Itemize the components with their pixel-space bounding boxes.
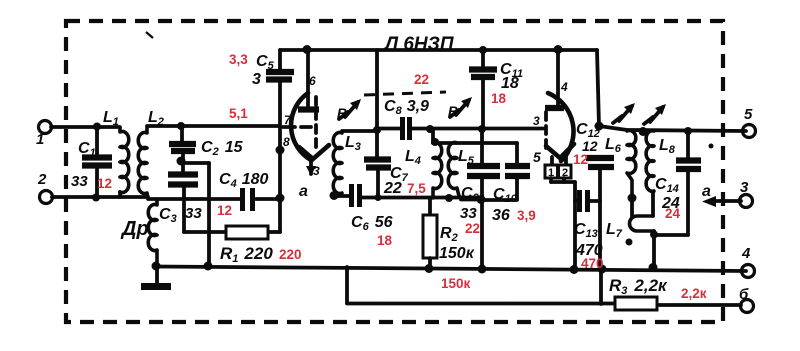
svg-text:36: 36 xyxy=(492,207,510,224)
svg-text:3,3: 3,3 xyxy=(229,52,248,67)
svg-text:б: б xyxy=(739,286,749,303)
svg-text:24: 24 xyxy=(665,206,681,221)
svg-text:1: 1 xyxy=(36,131,44,148)
svg-text:22: 22 xyxy=(465,221,480,236)
svg-text:3: 3 xyxy=(740,179,749,196)
svg-text:18: 18 xyxy=(491,91,507,106)
svg-text:22: 22 xyxy=(414,72,429,87)
svg-text:12: 12 xyxy=(217,203,232,218)
svg-text:150к: 150к xyxy=(439,245,475,262)
svg-text:R1220: R1220 xyxy=(220,244,273,265)
svg-text:18: 18 xyxy=(377,233,393,248)
svg-text:В: В xyxy=(337,105,347,121)
svg-text:R32,2к: R32,2к xyxy=(609,276,668,297)
svg-text:2,2к: 2,2к xyxy=(681,286,707,301)
svg-text:22: 22 xyxy=(383,180,402,197)
svg-text:В: В xyxy=(448,103,458,119)
svg-text:12: 12 xyxy=(573,152,588,167)
svg-text:3: 3 xyxy=(533,114,540,128)
svg-text:С83,9: С83,9 xyxy=(384,98,429,117)
svg-text:2: 2 xyxy=(562,167,568,179)
svg-text:4: 4 xyxy=(560,80,568,94)
svg-text:12: 12 xyxy=(97,176,112,191)
svg-text:а: а xyxy=(702,183,711,200)
svg-text:4: 4 xyxy=(741,245,751,262)
svg-text:470: 470 xyxy=(581,256,604,271)
svg-text:3: 3 xyxy=(252,71,261,88)
svg-text:150к: 150к xyxy=(441,276,471,291)
svg-text:5: 5 xyxy=(533,149,541,165)
svg-text:2: 2 xyxy=(37,171,47,188)
svg-text:3: 3 xyxy=(313,164,320,178)
svg-text:5: 5 xyxy=(744,106,753,123)
svg-text:220: 220 xyxy=(279,247,302,262)
svg-text:33: 33 xyxy=(460,205,477,222)
svg-text:Л 6НЗП: Л 6НЗП xyxy=(383,34,454,55)
svg-text:3,9: 3,9 xyxy=(517,208,536,223)
svg-text:7,5: 7,5 xyxy=(407,181,426,196)
svg-text:Др: Др xyxy=(120,218,149,240)
svg-text:33: 33 xyxy=(71,173,88,190)
svg-text:33: 33 xyxy=(185,205,202,222)
svg-text:18: 18 xyxy=(501,75,519,92)
svg-text:а: а xyxy=(299,183,308,200)
svg-text:С4180: С4180 xyxy=(219,171,268,190)
svg-text:5,1: 5,1 xyxy=(229,106,248,121)
svg-text:1: 1 xyxy=(548,167,554,179)
svg-text:8: 8 xyxy=(283,135,290,149)
svg-text:6: 6 xyxy=(309,74,316,88)
